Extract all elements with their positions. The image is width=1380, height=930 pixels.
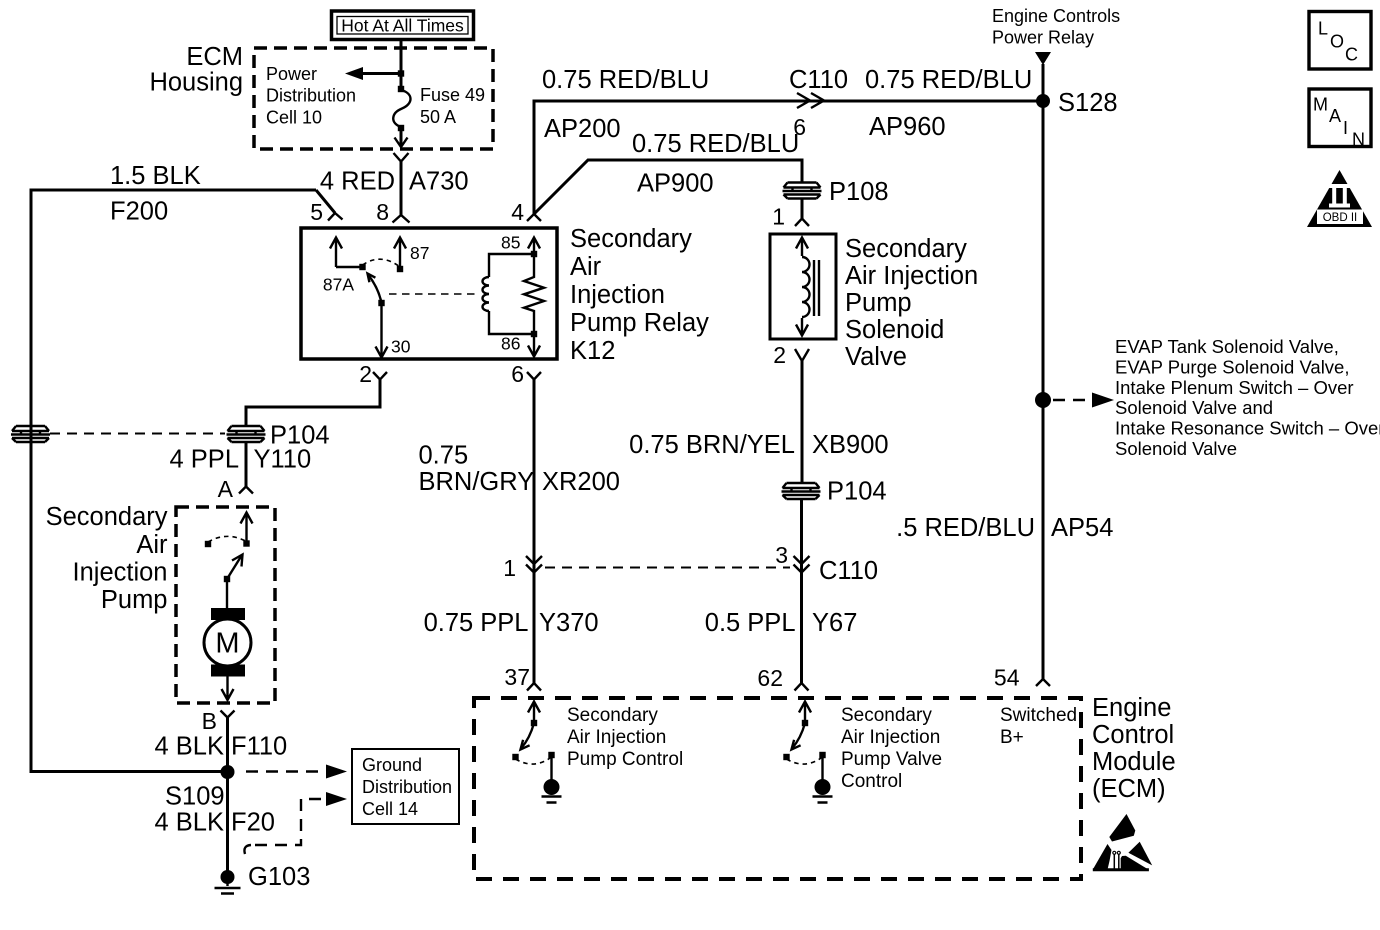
fuse F49 bottom square xyxy=(398,125,404,131)
svg-text:87A: 87A xyxy=(323,275,354,295)
wire 0.75 BRN/GRY XR200 / 0.75 PPL Y370 xyxy=(533,380,536,684)
svg-text:Ground: Ground xyxy=(362,755,422,775)
svg-text:P104: P104 xyxy=(270,422,330,450)
svg-text:50 A: 50 A xyxy=(420,107,456,127)
Hot At All Times box xyxy=(332,11,474,40)
svg-text:Engine: Engine xyxy=(1092,694,1171,722)
relay pin 30 internal arrow xyxy=(376,303,388,358)
svg-text:6: 6 xyxy=(511,361,524,387)
svg-text:0.5 PPL: 0.5 PPL xyxy=(705,609,796,637)
ECM pin 62 ground contact square xyxy=(819,752,825,758)
LOC icon xyxy=(1309,12,1371,70)
svg-text:Switched: Switched xyxy=(1000,705,1077,726)
fuse F49 body xyxy=(393,90,410,127)
connector C110 cavity 6 chevrons xyxy=(797,93,824,108)
svg-text:4 RED: 4 RED xyxy=(320,168,395,196)
fuse F49 top square xyxy=(398,86,404,92)
wire fuse output with open arrow down xyxy=(400,128,403,146)
svg-text:Y110: Y110 xyxy=(254,446,312,474)
svg-text:AP960: AP960 xyxy=(869,113,946,141)
svg-text:C: C xyxy=(1345,45,1358,65)
pump switch dashed arc xyxy=(208,536,247,542)
svg-text:P108: P108 xyxy=(829,178,889,206)
solenoid core lines xyxy=(814,260,819,316)
svg-text:EVAP Tank Solenoid Valve,: EVAP Tank Solenoid Valve, xyxy=(1115,336,1339,357)
wire 0.75 RED/BLU AP200 xyxy=(534,101,1043,214)
svg-text:1.5 BLK: 1.5 BLK xyxy=(110,162,201,190)
ECM pin 62 internal arrow xyxy=(799,702,811,724)
svg-text:M: M xyxy=(1313,95,1328,115)
svg-text:4 PPL: 4 PPL xyxy=(170,446,239,474)
splice S128 xyxy=(1036,94,1050,108)
relay K12 box xyxy=(301,228,557,359)
svg-text:Secondary: Secondary xyxy=(567,705,658,726)
ECM pin 37 internal arrow xyxy=(528,702,540,724)
grommet P108 xyxy=(783,183,822,199)
pump switch blade with arrowhead xyxy=(227,557,241,580)
connector C110 cavity 3 chevrons xyxy=(794,556,810,573)
ECM pin 37 chevron (arms down) xyxy=(527,683,541,691)
svg-text:Intake Resonance Switch – Over: Intake Resonance Switch – Over xyxy=(1115,418,1380,439)
relay pin 8/87 internal arrow xyxy=(394,238,406,270)
svg-text:62: 62 xyxy=(757,665,783,691)
motor M top brush xyxy=(211,608,245,620)
svg-text:Air Injection: Air Injection xyxy=(841,727,940,748)
ground G103 xyxy=(221,870,235,884)
svg-text:0.75 RED/BLU: 0.75 RED/BLU xyxy=(865,66,1032,94)
svg-text:A: A xyxy=(1329,106,1341,126)
wire 4 BLK F110/F20 xyxy=(226,718,229,878)
wire P108 to solenoid valve pin 1 xyxy=(801,198,804,219)
svg-text:F20: F20 xyxy=(231,809,275,837)
grommet P104 lower xyxy=(782,483,821,499)
svg-text:A730: A730 xyxy=(409,168,469,196)
svg-text:0.75 PPL: 0.75 PPL xyxy=(424,609,529,637)
connector chevron A730 top (arms up) xyxy=(394,153,409,162)
svg-text:37: 37 xyxy=(504,664,530,690)
wire 0.5 PPL Y67 xyxy=(800,499,803,683)
wire S128 to ECM pin 54 (.5 RED/BLU AP54) xyxy=(1042,64,1045,679)
wire 1.5 BLK F200 left loop xyxy=(31,190,335,772)
ECM pin 54 chevron (arms down) xyxy=(1036,679,1050,686)
svg-text:Module: Module xyxy=(1092,748,1176,776)
relay coil bottom junction square xyxy=(531,331,537,337)
dashed arrow F20 to Ground Distribution xyxy=(244,845,251,854)
svg-text:F110: F110 xyxy=(231,733,287,761)
relay pin 5 internal arrow xyxy=(330,238,363,268)
pump pin B chevron (arms up) xyxy=(221,711,235,718)
wire 4 PPL Y110 to pump pin A xyxy=(245,442,248,487)
svg-text:3: 3 xyxy=(775,542,788,568)
svg-text:Intake Plenum Switch – Over: Intake Plenum Switch – Over xyxy=(1115,377,1354,398)
solenoid valve box xyxy=(770,234,836,339)
svg-text:AP900: AP900 xyxy=(637,170,714,198)
relay coil branch xyxy=(489,254,534,334)
svg-text:B+: B+ xyxy=(1000,727,1024,748)
svg-text:Secondary: Secondary xyxy=(46,503,168,531)
relay contact 87 square xyxy=(397,266,403,272)
wire 0.75 BRN/YEL XB900 xyxy=(801,361,804,482)
svg-text:Air: Air xyxy=(570,253,602,281)
svg-text:BRN/GRY: BRN/GRY xyxy=(419,468,535,496)
connector C110 cavity 1 chevrons xyxy=(526,556,542,573)
wire 0.75 RED/BLU AP900 xyxy=(534,160,802,214)
svg-text:54: 54 xyxy=(994,665,1020,691)
svg-text:85: 85 xyxy=(501,233,520,253)
svg-text:Air Injection: Air Injection xyxy=(845,262,978,290)
ECM pin 37 blade with arrowhead xyxy=(521,723,534,749)
ECM pin 62 dashed arc xyxy=(787,757,823,764)
svg-text:Valve: Valve xyxy=(845,343,907,371)
svg-text:Y67: Y67 xyxy=(812,609,857,637)
svg-text:Power: Power xyxy=(266,64,317,84)
svg-text:S128: S128 xyxy=(1058,89,1118,117)
ESD warning symbol xyxy=(1093,814,1152,871)
svg-text:Pump Valve: Pump Valve xyxy=(841,749,942,770)
motor M bottom brush xyxy=(211,665,245,677)
ECM pin 37 left contact square xyxy=(512,754,518,760)
svg-text:Pump: Pump xyxy=(845,289,912,317)
svg-text:Cell 10: Cell 10 xyxy=(266,108,322,128)
dashed arrow to EVAP valves xyxy=(1053,399,1088,401)
svg-text:Power Relay: Power Relay xyxy=(992,28,1094,48)
svg-text:Hot At All Times: Hot At All Times xyxy=(341,16,464,36)
ECM pin 62 ground xyxy=(821,755,823,780)
relay pin 85 internal arrow xyxy=(528,238,540,255)
svg-text:A: A xyxy=(218,476,234,502)
pump switch right contact square xyxy=(243,540,249,546)
relay blade pivot square xyxy=(378,300,384,306)
svg-text:O: O xyxy=(1330,32,1344,52)
svg-text:2: 2 xyxy=(359,361,372,387)
pump dashed box xyxy=(176,507,275,703)
svg-text:4: 4 xyxy=(511,199,524,225)
svg-text:L: L xyxy=(1318,19,1328,39)
ECM pin 62 chevron (arms down) xyxy=(795,683,809,691)
svg-text:30: 30 xyxy=(391,337,411,357)
svg-text:0.75: 0.75 xyxy=(419,442,469,470)
relay contact 87A square xyxy=(359,264,365,270)
MAIN icon xyxy=(1309,89,1371,147)
splice to EVAP solenoid valves xyxy=(1035,392,1051,408)
junction square fuse feed xyxy=(398,70,404,76)
relay dashed throw arc xyxy=(363,259,401,267)
relay pin 8 chevron (arms down) xyxy=(393,215,410,223)
svg-text:86: 86 xyxy=(501,334,520,354)
relay pin 6 chevron (arms up) xyxy=(527,372,541,380)
svg-text:1: 1 xyxy=(503,555,516,581)
svg-text:Fuse 49: Fuse 49 xyxy=(420,85,485,105)
svg-text:0.75 RED/BLU: 0.75 RED/BLU xyxy=(632,130,799,158)
pump motor feed wire xyxy=(226,579,228,609)
svg-text:OBD II: OBD II xyxy=(1323,212,1358,224)
pump switch left contact square xyxy=(205,541,211,547)
svg-text:I: I xyxy=(1343,118,1348,138)
svg-text:Pump Control: Pump Control xyxy=(567,749,683,770)
svg-text:0.75 RED/BLU: 0.75 RED/BLU xyxy=(542,66,709,94)
relay mechanical link dashed xyxy=(389,293,478,295)
svg-text:5: 5 xyxy=(310,199,323,225)
svg-text:Air Injection: Air Injection xyxy=(567,727,666,748)
relay pin 2 chevron (arms up) xyxy=(373,372,387,380)
svg-text:Injection: Injection xyxy=(73,559,168,587)
svg-text:Secondary: Secondary xyxy=(845,235,967,263)
svg-text:Solenoid Valve and: Solenoid Valve and xyxy=(1115,397,1273,418)
svg-text:Secondary: Secondary xyxy=(570,225,692,253)
svg-text:F200: F200 xyxy=(110,198,168,226)
relay pin 4 chevron (arms down) xyxy=(527,214,541,221)
ECM pin 37 ground xyxy=(550,755,552,780)
wire power distribution branch xyxy=(363,72,401,75)
svg-text:AP54: AP54 xyxy=(1051,514,1113,542)
wire battery feed into fuse xyxy=(400,40,403,88)
relay movable blade with arrowhead xyxy=(368,275,382,304)
pump pin A internal arrow xyxy=(241,513,253,544)
relay pin 5 chevron (arms down rotated) xyxy=(328,213,343,221)
svg-text:ECM: ECM xyxy=(186,43,243,71)
ECM pin 37 dashed arc xyxy=(516,757,552,764)
svg-text:Cell 14: Cell 14 xyxy=(362,799,418,819)
relay resistor zigzag xyxy=(524,254,544,334)
ECM dashed box xyxy=(474,698,1081,879)
svg-text:EVAP Purge Solenoid Valve,: EVAP Purge Solenoid Valve, xyxy=(1115,356,1349,377)
svg-text:Pump Relay: Pump Relay xyxy=(570,309,709,337)
svg-text:Air: Air xyxy=(136,531,168,559)
svg-text:4 BLK: 4 BLK xyxy=(155,733,224,761)
OBD II icon xyxy=(1307,170,1372,227)
svg-text:B: B xyxy=(202,708,217,734)
relay pin 86 internal arrow xyxy=(528,334,540,357)
pump pin B internal arrow xyxy=(222,676,234,700)
grommet unnamed on F200 link xyxy=(11,426,50,442)
solenoid internal coil with arrows xyxy=(796,238,808,336)
svg-text:Injection: Injection xyxy=(570,281,665,309)
svg-text:8: 8 xyxy=(376,199,389,225)
dashed link P104 grommets xyxy=(50,433,225,435)
svg-text:AP200: AP200 xyxy=(544,115,621,143)
svg-text:P104: P104 xyxy=(827,478,887,506)
wire relay pin 2 to P104 (4 PPL Y110) xyxy=(246,380,380,426)
svg-text:Engine Controls: Engine Controls xyxy=(992,6,1120,26)
solenoid pin 1 chevron (arms down) xyxy=(795,219,809,227)
svg-text:XR200: XR200 xyxy=(542,468,620,496)
pump blade pivot square xyxy=(224,576,230,582)
svg-text:87: 87 xyxy=(410,243,429,263)
svg-text:M: M xyxy=(215,628,239,660)
ECM pin 62 pivot square xyxy=(802,720,808,726)
ECM pin 62 left contact square xyxy=(783,754,789,760)
solenoid pin 2 chevron (arms up) xyxy=(795,349,809,361)
svg-text:2: 2 xyxy=(773,342,786,368)
svg-text:Solenoid Valve: Solenoid Valve xyxy=(1115,438,1237,459)
arrowhead to Power Distribution xyxy=(345,67,363,80)
svg-text:Housing: Housing xyxy=(149,69,243,97)
motor M circle xyxy=(204,619,251,666)
svg-text:S109: S109 xyxy=(165,783,225,811)
svg-text:Control: Control xyxy=(841,771,902,792)
svg-text:Pump: Pump xyxy=(101,586,168,614)
wire 4 RED A730 xyxy=(400,162,403,216)
svg-text:1: 1 xyxy=(772,204,785,230)
ECM pin 37 ground contact square xyxy=(548,752,554,758)
svg-text:Control: Control xyxy=(1092,721,1174,749)
Ground Distribution Cell 14 box xyxy=(352,749,459,824)
svg-text:C110: C110 xyxy=(789,66,848,94)
svg-text:Secondary: Secondary xyxy=(841,705,932,726)
relay coil top junction square xyxy=(531,251,537,257)
svg-text:0.75 BRN/YEL: 0.75 BRN/YEL xyxy=(629,431,795,459)
svg-text:Solenoid: Solenoid xyxy=(845,316,944,344)
svg-text:.5 RED/BLU: .5 RED/BLU xyxy=(896,514,1035,542)
svg-text:G103: G103 xyxy=(248,863,310,891)
splice S109 xyxy=(221,765,235,779)
pump pin A chevron (arms down) xyxy=(239,487,253,494)
svg-text:(ECM): (ECM) xyxy=(1092,775,1166,803)
ECM Housing dashed box xyxy=(254,48,493,149)
ECM pin 37 pivot square xyxy=(531,720,537,726)
dashed link C110 xyxy=(545,567,790,569)
svg-text:Y370: Y370 xyxy=(539,609,599,637)
dashed arrow S109 to Ground Distribution xyxy=(246,770,322,772)
svg-text:Distribution: Distribution xyxy=(362,777,452,797)
svg-text:C110: C110 xyxy=(819,557,878,585)
ECM pin 62 blade with arrowhead xyxy=(792,723,805,749)
svg-text:Distribution: Distribution xyxy=(266,86,356,106)
svg-text:N: N xyxy=(1352,130,1365,150)
svg-text:XB900: XB900 xyxy=(812,431,889,459)
grommet P104 mid xyxy=(227,426,266,442)
svg-text:K12: K12 xyxy=(570,337,615,365)
svg-text:4 BLK: 4 BLK xyxy=(155,809,224,837)
off-page arrow Engine Controls Power Relay xyxy=(1035,52,1051,65)
